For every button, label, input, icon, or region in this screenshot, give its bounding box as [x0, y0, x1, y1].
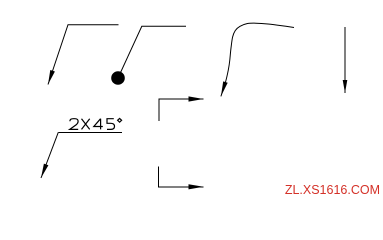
leader L1 polyline: [48, 25, 119, 85]
leader L4 vertical line: [344, 27, 346, 93]
leader L1 arrowhead: [48, 70, 55, 85]
label 2X45 char 4: [94, 119, 103, 130]
label 2X45 degree sign: [118, 118, 122, 122]
leader L3 arrowhead: [221, 81, 228, 96]
leader L2 dot: [111, 71, 125, 85]
leader L7 arrowhead: [189, 184, 204, 189]
leader L6 arrowhead: [189, 96, 204, 101]
leader L2 polyline: [118, 26, 186, 78]
label 2X45 char 2: [70, 119, 79, 130]
leader L4 arrowhead: [343, 80, 348, 93]
label 2X45 char 5: [107, 119, 115, 130]
svg-text:ZL.XS1616.COM: ZL.XS1616.COM: [285, 183, 380, 197]
leader L5 arrowhead: [41, 164, 48, 178]
leader L3 spline: [221, 23, 294, 96]
leader L6 top bracket: [159, 99, 204, 121]
label 2X45 char X: [82, 119, 90, 130]
leader L7 bottom bracket: [159, 166, 204, 187]
leader L5 diagonal: [41, 132, 58, 178]
leader L5 shoulder line: [58, 131, 122, 133]
